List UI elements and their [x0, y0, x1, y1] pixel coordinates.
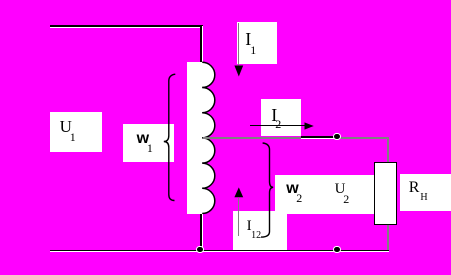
resistor RH body — [374, 162, 398, 225]
label box W1 — [123, 124, 174, 162]
junction dot: coil bottom / bottom rail — [196, 246, 203, 253]
coil W1 body (white core rectangle) — [187, 62, 203, 214]
wire: gray tap line from coil middle to load branch — [203, 137, 389, 139]
brace W2 (right curly brace on secondary winding) — [255, 138, 279, 242]
label box I2 — [261, 99, 301, 136]
label RH text — [409, 179, 420, 197]
label box U1 — [50, 112, 102, 152]
junction dot: tap line / load branch — [333, 133, 340, 140]
wire: top horizontal from source to coil top — [50, 25, 203, 28]
label box W2+U2 band — [275, 175, 375, 214]
label box RH band — [400, 174, 451, 211]
brace W1 (left curly brace spanning whole winding) — [156, 68, 182, 208]
wire: gray vertical to load (upper) — [387, 137, 389, 163]
current arrow I1 (down) — [238, 23, 240, 66]
current arrow I12 (up) — [234, 187, 244, 198]
label box I12 — [233, 211, 287, 250]
label I1 text — [245, 29, 251, 50]
wire: black segment of tap line under I2 to junction — [301, 136, 337, 139]
label U2 text — [335, 181, 346, 198]
coil W1 turns (6 arcs) — [186, 55, 220, 221]
label U1 text — [60, 117, 72, 137]
wire: bottom rail — [50, 250, 389, 253]
junction dot: bottom rail / load branch — [333, 246, 340, 253]
current arrow I2 (right) — [250, 125, 305, 126]
label w1 text — [137, 130, 149, 148]
label I2 text — [271, 105, 277, 126]
wire: coil bottom to bottom rail — [200, 214, 203, 251]
label I12 text — [247, 218, 252, 235]
label box I1 — [237, 22, 278, 64]
label w2 text — [286, 180, 298, 198]
wire: gray vertical to load (lower) — [387, 224, 389, 250]
wire: vertical drop from top wire to coil top — [200, 26, 203, 63]
